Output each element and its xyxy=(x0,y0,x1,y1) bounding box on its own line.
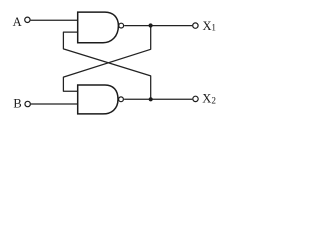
input terminal B (open circle) xyxy=(25,101,30,106)
wire: feedback from X2 junction up-left into U1 lower input xyxy=(63,32,150,98)
svg-text:2: 2 xyxy=(211,95,216,105)
svg-text:B: B xyxy=(13,96,21,110)
nand gate U2 output bubble xyxy=(119,97,124,102)
wire: feedback from X1 junction down-left into U2 upper input xyxy=(63,26,150,91)
input terminal A (open circle) xyxy=(25,17,30,22)
wire: input B to gate U2 xyxy=(31,103,78,105)
svg-text:X: X xyxy=(202,92,211,106)
svg-text:X: X xyxy=(203,19,212,33)
wire: input A to gate U1 xyxy=(31,19,78,21)
svg-text:1: 1 xyxy=(211,23,216,33)
junction dot on X1 wire xyxy=(149,23,153,27)
wire: U2 output to X2 terminal xyxy=(124,98,192,100)
nand gate U2 (bottom) body xyxy=(78,85,118,114)
nand gate U1 output bubble xyxy=(119,23,124,28)
output terminal X2 (open circle) xyxy=(193,96,198,101)
svg-text:A: A xyxy=(13,15,22,29)
junction dot on X2 wire xyxy=(149,97,153,101)
nand gate U1 (top) body xyxy=(78,12,119,43)
wire: U1 output to X1 terminal xyxy=(124,25,192,27)
output terminal X1 (open circle) xyxy=(193,23,198,28)
